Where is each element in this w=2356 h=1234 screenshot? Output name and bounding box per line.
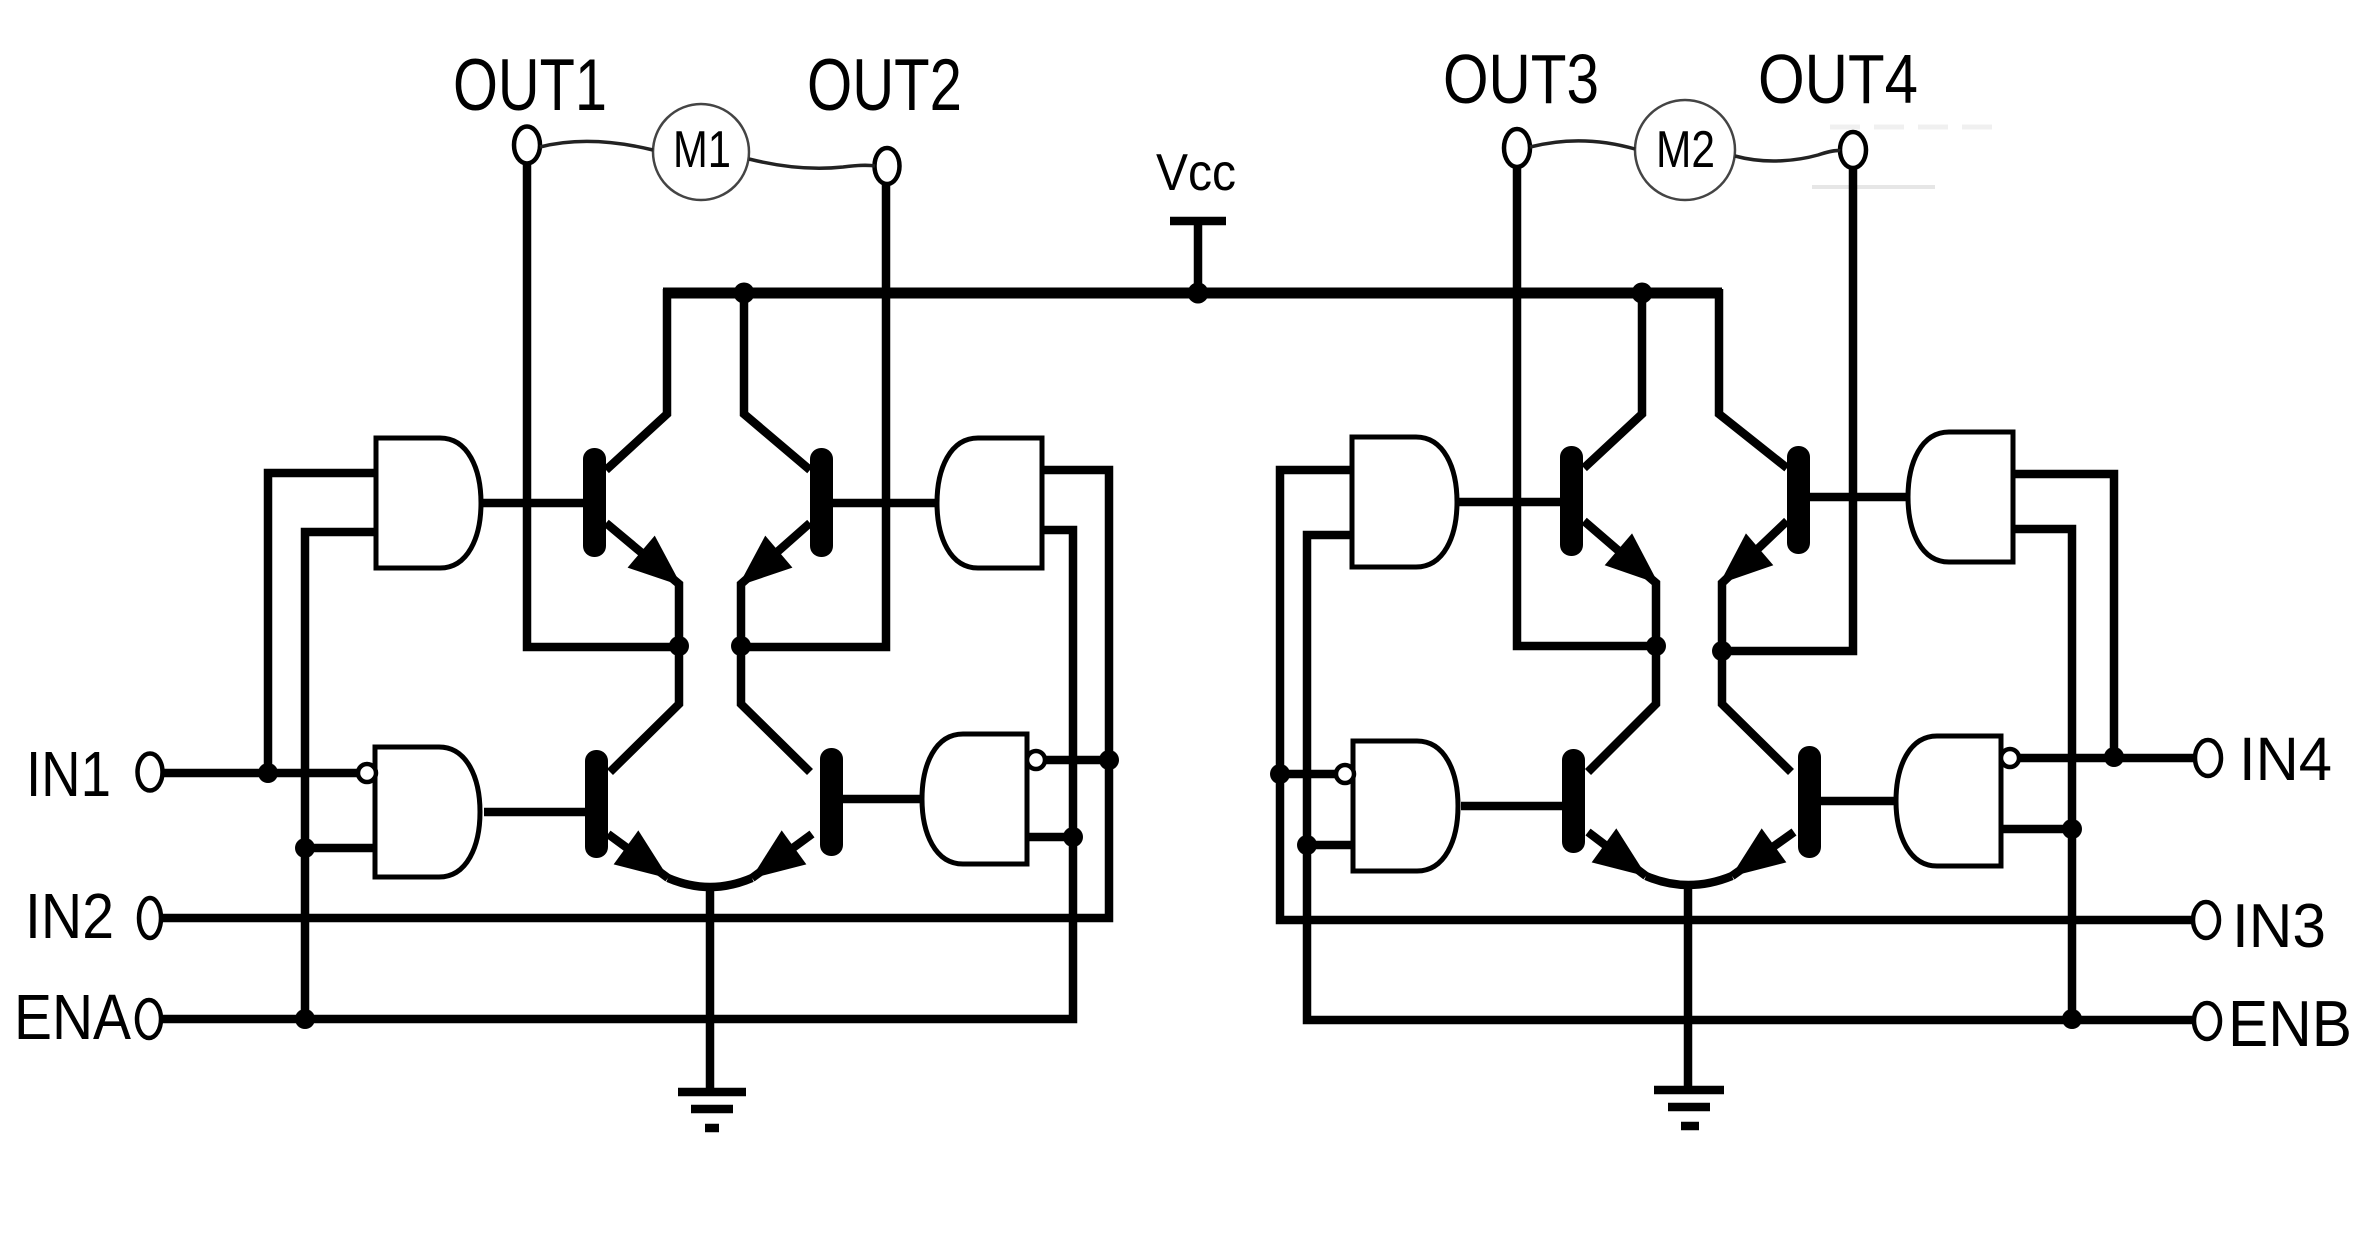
svg-text:IN1: IN1 — [26, 738, 111, 810]
svg-text:IN4: IN4 — [2239, 725, 2332, 793]
svg-text:ENB: ENB — [2228, 987, 2352, 1060]
svg-text:M2: M2 — [1656, 121, 1715, 179]
svg-text:IN2: IN2 — [25, 880, 114, 952]
svg-text:OUT1: OUT1 — [453, 45, 607, 126]
svg-text:M1: M1 — [673, 121, 731, 179]
svg-text:IN3: IN3 — [2232, 892, 2326, 961]
svg-text:OUT2: OUT2 — [807, 45, 962, 126]
svg-text:ENA: ENA — [14, 981, 131, 1053]
svg-text:OUT3: OUT3 — [1443, 40, 1599, 118]
svg-text:OUT4: OUT4 — [1758, 40, 1918, 118]
svg-text:Vcc: Vcc — [1156, 144, 1236, 202]
